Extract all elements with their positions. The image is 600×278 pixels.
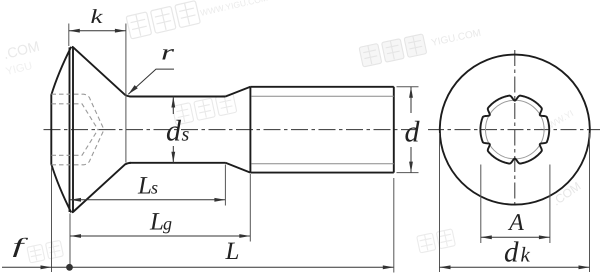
dimension d line bbox=[409, 87, 413, 173]
dimension k line bbox=[69, 29, 126, 33]
shank top bbox=[130, 96, 226, 98]
svg-text:A: A bbox=[507, 210, 524, 236]
dimension f line with outside arrow bbox=[2, 265, 70, 269]
end view centerline horizontal bbox=[428, 129, 600, 131]
svg-text:f: f bbox=[13, 234, 30, 258]
recess outer wall top bbox=[52, 94, 105, 129]
svg-text:g: g bbox=[163, 214, 172, 234]
recess inner wall top bbox=[52, 104, 99, 130]
svg-text:YIGU: YIGU bbox=[5, 60, 34, 78]
recess inner wall bottom bbox=[52, 130, 99, 156]
head circle dk bbox=[440, 55, 590, 205]
dimension d extension lines bbox=[397, 87, 419, 173]
thread major top bbox=[250, 86, 393, 88]
dimension Lg line bbox=[70, 174, 250, 242]
svg-text:L: L bbox=[225, 238, 240, 265]
bearing cone bottom bbox=[72, 163, 131, 213]
end view centerline vertical bbox=[428, 50, 600, 208]
dome crown bbox=[51, 47, 71, 213]
dimension Ls line bbox=[70, 165, 225, 206]
dimension k extension lines bbox=[69, 24, 126, 163]
svg-text:s: s bbox=[182, 123, 190, 145]
runout chamfer bottom bbox=[226, 163, 251, 173]
shank bottom bbox=[130, 162, 226, 164]
svg-text:k: k bbox=[521, 243, 531, 267]
hexalobular socket outline bbox=[480, 96, 549, 164]
thread start vertical bbox=[249, 87, 251, 173]
recess root circle bbox=[486, 100, 545, 159]
svg-text:s: s bbox=[151, 178, 158, 198]
svg-text:YIGU.COM: YIGU.COM bbox=[430, 28, 482, 49]
svg-text:d: d bbox=[504, 237, 519, 269]
dimension dk extension lines bbox=[440, 133, 590, 272]
head max diameter line 2 bbox=[72, 47, 74, 213]
recess outer wall bottom bbox=[52, 130, 105, 165]
svg-text:.COM: .COM bbox=[2, 38, 41, 62]
dimension L line with dot bbox=[66, 178, 394, 273]
bearing cone top bbox=[72, 47, 131, 97]
leader r bbox=[128, 69, 174, 94]
dimension A extension lines bbox=[481, 165, 550, 244]
svg-text:WWW.YIGU.COM: WWW.YIGU.COM bbox=[199, 0, 268, 18]
thread minor lines bbox=[252, 96, 394, 163]
svg-text:L: L bbox=[137, 173, 152, 200]
svg-text:d: d bbox=[166, 114, 182, 147]
centerline side view axis bbox=[44, 129, 422, 131]
dimension f extension line bbox=[52, 167, 71, 272]
hidden recess outline dashed bbox=[52, 94, 105, 165]
thread major bottom bbox=[250, 172, 393, 174]
svg-text:k: k bbox=[91, 6, 104, 28]
svg-text:L: L bbox=[149, 209, 164, 236]
dimension ds line bbox=[171, 97, 175, 163]
dimension dk line bbox=[440, 265, 590, 269]
svg-text:r: r bbox=[161, 40, 175, 65]
screw end face bbox=[393, 87, 395, 173]
svg-text:d: d bbox=[405, 115, 421, 148]
dimension A line bbox=[481, 235, 550, 239]
runout chamfer top bbox=[226, 87, 251, 97]
head outline bbox=[51, 47, 394, 213]
head max diameter line 1 bbox=[69, 47, 71, 212]
